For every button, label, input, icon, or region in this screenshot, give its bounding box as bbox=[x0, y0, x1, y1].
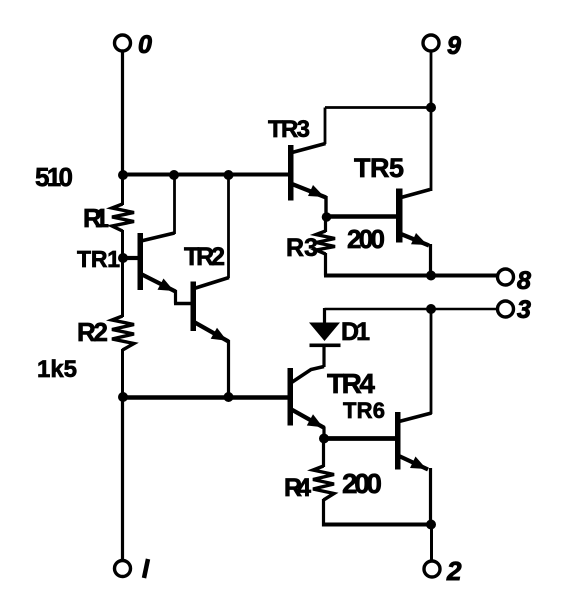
terminal 0 bbox=[115, 35, 131, 51]
wire TR6 emitter down to bottom wire bbox=[429, 468, 432, 525]
transistor TR6 bbox=[395, 412, 432, 470]
wire TR5 emitter down to output wire bbox=[429, 244, 432, 276]
wire junction to terminal 2 bbox=[430, 524, 433, 561]
junction TR6 base node bbox=[319, 434, 329, 444]
wire R2 to lower bus junction bbox=[121, 349, 124, 398]
wire TR3 collector top horizontal to terminal 9 net bbox=[325, 106, 431, 109]
diode D1 bbox=[309, 308, 341, 367]
junction left bus bbox=[118, 170, 128, 180]
resistor R4 bbox=[313, 466, 334, 500]
label TR4 bbox=[327, 368, 375, 399]
wire R3 down to output wire corner bbox=[324, 253, 327, 276]
svg-text:510: 510 bbox=[35, 162, 73, 192]
svg-text:TR6: TR6 bbox=[343, 398, 385, 423]
label 200 upper bbox=[347, 224, 385, 254]
svg-text:9: 9 bbox=[447, 32, 461, 60]
wire TR1 emitter to TR2 base bbox=[174, 290, 191, 304]
terminal 0 label bbox=[138, 31, 152, 59]
transistor TR1 bbox=[123, 233, 176, 292]
svg-text:R4: R4 bbox=[284, 474, 311, 502]
svg-text:TR5: TR5 bbox=[354, 153, 404, 183]
terminal 2 label bbox=[446, 556, 462, 586]
label 510 bbox=[35, 162, 73, 192]
resistor R3 bbox=[316, 231, 335, 254]
label R1 bbox=[83, 203, 109, 233]
wire TR1 collector to bus bbox=[173, 175, 176, 234]
junction TR5 base node bbox=[322, 212, 332, 222]
terminal 2 bbox=[424, 561, 440, 577]
label R3 bbox=[286, 234, 318, 262]
svg-text:0: 0 bbox=[138, 31, 152, 59]
svg-text:TR3: TR3 bbox=[268, 116, 310, 143]
wire R4 down to bottom wire corner bbox=[322, 499, 325, 527]
label D1 bbox=[341, 318, 370, 346]
svg-text:200: 200 bbox=[342, 468, 382, 499]
label TR6 bbox=[343, 398, 385, 423]
terminal 3 label bbox=[517, 296, 531, 324]
terminal 3 bbox=[498, 301, 514, 317]
wire TR6 base node down to resistor R4 bbox=[322, 438, 325, 467]
junction top right bbox=[426, 103, 436, 113]
svg-text:1k5: 1k5 bbox=[37, 356, 77, 383]
bottom wire bbox=[322, 523, 432, 527]
svg-text:R1: R1 bbox=[83, 203, 109, 233]
output wire to terminal 8 bbox=[324, 274, 498, 278]
junction lower-left node bbox=[118, 392, 128, 402]
label 1k5 bbox=[37, 356, 77, 383]
transistor TR2 bbox=[191, 278, 230, 342]
wire bus to resistor R1 bbox=[121, 175, 124, 205]
junction TR1 collector at bus bbox=[169, 170, 179, 180]
wire TR3 collector up bbox=[324, 108, 327, 145]
terminal 8 bbox=[498, 269, 514, 285]
transistor TR5 bbox=[326, 189, 430, 246]
label R2 bbox=[77, 317, 108, 347]
top bus wire (510 net) bbox=[121, 173, 289, 177]
svg-text:D1: D1 bbox=[341, 318, 370, 346]
resistor R1 bbox=[112, 204, 134, 231]
junction bottom right bbox=[426, 520, 436, 530]
svg-text:R3: R3 bbox=[286, 234, 318, 262]
label TR2 bbox=[184, 243, 225, 271]
junction TR1 base bbox=[118, 253, 128, 263]
wire TR2 emitter down to lower bus bbox=[227, 340, 230, 397]
wire R1 to node below (through TR1 base junction) bbox=[121, 230, 124, 317]
svg-text:TR4: TR4 bbox=[327, 368, 375, 399]
wire lower bus to terminal 1 bbox=[121, 397, 124, 560]
wire TR6 collector up to node 3 bbox=[430, 309, 433, 414]
wire TR5 base node down to resistor R3 bbox=[324, 217, 327, 232]
terminal 8 label bbox=[517, 267, 531, 295]
wire TR3 emitter down to TR5 base node bbox=[324, 196, 327, 218]
label TR5 bbox=[354, 153, 404, 183]
terminal 1 label bbox=[144, 559, 148, 578]
wire TR2 collector to bus bbox=[227, 175, 230, 278]
wire node 3 horizontal bbox=[325, 308, 499, 311]
wire terminal 0 to top bus bbox=[121, 51, 124, 176]
junction TR2 emitter at lower bus bbox=[224, 392, 234, 402]
transistor TR3 bbox=[288, 144, 326, 201]
label TR3 bbox=[268, 116, 310, 143]
transistor TR4 bbox=[288, 367, 325, 429]
resistor R2 bbox=[112, 316, 134, 350]
svg-text:8: 8 bbox=[517, 267, 531, 295]
junction TR2 collector at bus bbox=[224, 170, 234, 180]
svg-text:2: 2 bbox=[446, 556, 462, 586]
label 200 lower bbox=[342, 468, 382, 499]
terminal 9 bbox=[423, 35, 439, 51]
wire terminal 9 down to TR5 collector bbox=[430, 51, 433, 191]
label TR1 bbox=[77, 246, 120, 272]
junction node 3 bbox=[426, 304, 436, 314]
wire TR6 base bbox=[324, 436, 395, 441]
svg-text:R2: R2 bbox=[77, 317, 108, 347]
svg-text:TR2: TR2 bbox=[184, 243, 225, 271]
terminal 1 bbox=[115, 561, 131, 577]
label R4 bbox=[284, 474, 311, 502]
svg-text:3: 3 bbox=[517, 296, 531, 324]
svg-text:200: 200 bbox=[347, 224, 385, 254]
terminal 9 label bbox=[447, 32, 461, 60]
lower bus wire to TR4 base bbox=[121, 395, 289, 400]
junction TR5 emitter at output wire bbox=[426, 271, 436, 281]
wire TR4 emitter down to TR6 base node bbox=[322, 427, 325, 439]
svg-text:TR1: TR1 bbox=[77, 246, 120, 272]
